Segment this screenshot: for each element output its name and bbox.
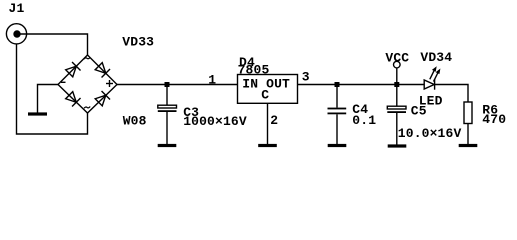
resistor R6 — [464, 102, 472, 124]
svg-text:3: 3 — [302, 69, 310, 84]
wire junction to C4 — [336, 85, 338, 108]
diode D-A (left to top) — [65, 62, 81, 78]
diode D-D (bottom to right) — [94, 91, 110, 107]
ground (R6) — [459, 144, 478, 147]
wire J1 pin to bridge top — [17, 34, 88, 56]
junction C4 — [335, 82, 340, 87]
LED VD34 — [424, 79, 434, 90]
AC mark bottom — [84, 107, 90, 109]
svg-text:C: C — [261, 88, 269, 103]
plus mark — [106, 80, 113, 87]
voltage regulator D4 7805 — [238, 75, 298, 104]
svg-text:W08: W08 — [123, 114, 147, 129]
wire J1 shell to bridge bottom — [17, 44, 88, 134]
wire LED to R6 — [435, 85, 468, 103]
connector J1 — [6, 24, 26, 44]
svg-text:7805: 7805 — [238, 63, 270, 78]
svg-text:1000×16V: 1000×16V — [183, 114, 247, 129]
svg-text:470: 470 — [482, 112, 506, 127]
svg-text:J1: J1 — [9, 1, 25, 16]
bridge rectifier VD33 diamond — [58, 55, 117, 113]
svg-text:1: 1 — [208, 73, 216, 88]
capacitor C5 — [387, 106, 406, 113]
wire VCC to rail and C5 — [396, 68, 398, 106]
diode D-B (top to right) — [94, 62, 110, 78]
svg-text:LED: LED — [419, 93, 443, 108]
capacitor C3 — [158, 105, 177, 112]
pin 2 wire regulator to ground — [267, 103, 269, 144]
wire bridge minus to ground — [38, 85, 59, 113]
wire R6 to ground — [467, 124, 469, 145]
wire regulator OUT to LED — [298, 84, 425, 86]
svg-text:2: 2 — [270, 113, 278, 128]
ground (regulator) — [258, 144, 277, 147]
ground (C3) — [158, 144, 177, 147]
svg-text:VD34: VD34 — [420, 50, 452, 65]
capacitor C4 — [328, 108, 347, 115]
diode D-C (left to bottom) — [65, 91, 81, 107]
svg-text:0.1: 0.1 — [352, 113, 376, 128]
AC mark top — [84, 57, 91, 59]
wire bridge plus to regulator IN — [117, 84, 238, 86]
wire C5 to ground — [396, 113, 398, 145]
svg-text:VD33: VD33 — [122, 34, 154, 49]
minus mark — [61, 81, 66, 83]
ground (C5) — [388, 144, 407, 147]
svg-text:VCC: VCC — [385, 51, 409, 66]
power terminal VCC — [394, 61, 401, 68]
ground (C4) — [328, 144, 347, 147]
svg-text:10.0×16V: 10.0×16V — [398, 126, 462, 141]
wire C4 to ground — [336, 114, 338, 144]
LED arrows — [430, 66, 441, 81]
wire junction to C3 — [166, 85, 168, 106]
wire C3 to ground — [166, 112, 168, 144]
junction C5/VCC — [394, 82, 399, 87]
ground (bridge minus) — [28, 112, 47, 115]
junction C3 — [165, 82, 170, 87]
